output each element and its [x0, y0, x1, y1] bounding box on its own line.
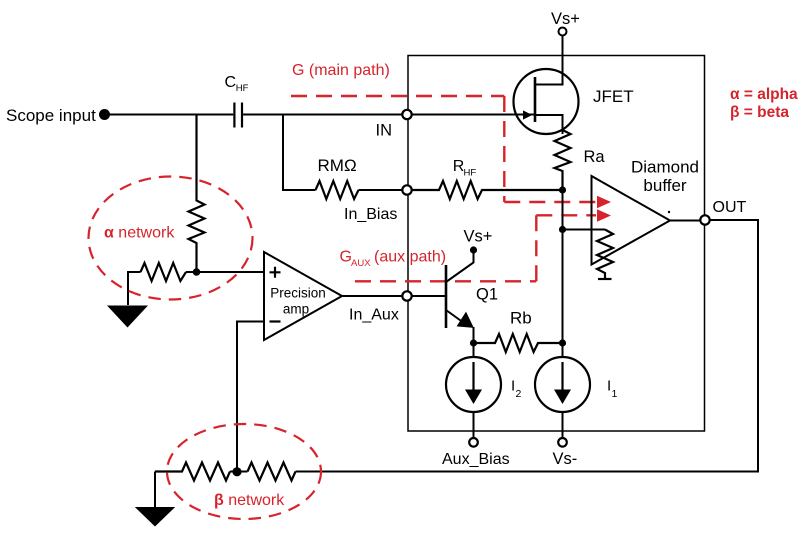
svg-text:AUX: AUX — [351, 258, 371, 269]
wire after capacitor — [243, 114, 535, 116]
q1 emitter — [446, 310, 464, 323]
current source I2 — [446, 357, 501, 412]
svg-text:RMΩ: RMΩ — [318, 156, 357, 175]
wire In_Aux to Q1 base — [412, 295, 446, 297]
wire left of resistor — [128, 272, 141, 305]
red dashed aux path — [355, 215, 596, 281]
wire to In_Bias — [359, 189, 408, 191]
terminal scope input dot — [99, 109, 110, 120]
svg-text:C: C — [225, 74, 237, 91]
node Ra bottom — [559, 186, 566, 193]
capacitor C_HF — [234, 103, 242, 128]
node Rb right — [559, 339, 566, 346]
resistor RMohm — [316, 181, 359, 199]
terminal Aux_Bias — [469, 438, 478, 447]
svg-text:amp: amp — [283, 302, 309, 317]
wire to buffer resistor — [563, 229, 606, 231]
resistor R_HF — [412, 181, 563, 199]
node emitter — [470, 339, 477, 346]
svg-text:Rb: Rb — [510, 309, 532, 328]
resistor beta left — [155, 463, 230, 481]
op-amp precision amp — [264, 252, 342, 340]
jfet source lead — [535, 115, 563, 134]
jfet drain lead — [535, 36, 563, 85]
q1 base bar — [445, 265, 448, 328]
red arrow 2 — [597, 209, 611, 221]
svg-text:IN: IN — [376, 122, 393, 140]
resistor buffer internal — [597, 230, 613, 280]
red ellipse alpha network — [89, 177, 253, 300]
node alpha — [193, 268, 201, 276]
svg-text:G (main path): G (main path) — [292, 62, 390, 79]
svg-text:Vs-: Vs- — [553, 450, 578, 468]
wire main input — [110, 114, 233, 116]
op-amp diamond buffer — [592, 176, 671, 265]
wire buffer output — [670, 220, 705, 222]
wire vertical to I1 — [562, 190, 564, 357]
terminal Vs- — [558, 438, 567, 447]
jfet circle — [514, 69, 579, 134]
wire feedback right — [296, 220, 759, 472]
svg-text:(aux path): (aux path) — [374, 249, 446, 266]
svg-text:buffer: buffer — [643, 176, 687, 195]
jfet gate arrow — [523, 110, 532, 119]
wire emitter down — [473, 327, 475, 343]
red ellipse beta network — [167, 424, 321, 519]
node In_Bias — [402, 185, 411, 194]
svg-text:Precision: Precision — [270, 286, 326, 301]
wire I2 top — [473, 343, 475, 357]
svg-text:JFET: JFET — [593, 87, 634, 106]
wire to plus input — [186, 271, 264, 273]
resistor alpha vertical — [189, 115, 205, 273]
ground beta — [135, 507, 175, 527]
plus sign — [270, 267, 281, 278]
q1 collector — [446, 253, 474, 282]
wire beta ground — [154, 472, 156, 508]
svg-text:Scope input: Scope input — [6, 106, 96, 125]
svg-text:β = beta: β = beta — [730, 104, 789, 121]
svg-text:2: 2 — [516, 388, 522, 400]
node In_Aux — [402, 291, 411, 300]
wire I1 bottom — [562, 412, 564, 438]
svg-text:Vs+: Vs+ — [551, 10, 580, 28]
svg-text:HF: HF — [236, 83, 249, 94]
svg-text:Diamond: Diamond — [631, 158, 699, 177]
node beta — [232, 467, 241, 476]
red arrow 1 — [597, 196, 611, 208]
svg-text:HF: HF — [464, 168, 477, 179]
wire amp output — [342, 295, 407, 297]
wire beta center — [230, 471, 248, 473]
wire I2 bottom — [473, 412, 475, 438]
jfet gate bar — [534, 77, 537, 122]
node OUT — [700, 215, 709, 224]
svg-text:α = alpha: α = alpha — [730, 86, 798, 103]
svg-text:Ra: Ra — [584, 148, 606, 166]
JFET U1 — [514, 36, 579, 134]
svg-text:Vs+: Vs+ — [464, 228, 493, 246]
terminal Vs+ Q1 — [470, 246, 477, 253]
svg-text:Aux_Bias: Aux_Bias — [442, 451, 510, 468]
ground alpha — [107, 306, 148, 328]
current source I1 — [535, 357, 590, 412]
decorative dot — [668, 211, 670, 213]
ground bar buffer — [598, 278, 612, 280]
terminal Vs+ top — [559, 28, 567, 36]
box amplifier block — [408, 56, 705, 432]
resistor Rb — [474, 334, 563, 352]
svg-text:α network: α network — [104, 225, 175, 242]
red dashed main path — [291, 96, 596, 202]
svg-text:Q1: Q1 — [476, 286, 498, 304]
transistor Q1 — [446, 253, 474, 328]
svg-text:OUT: OUT — [713, 199, 747, 216]
wire minus input — [237, 322, 264, 472]
wire RMohm branch — [283, 115, 316, 191]
minus sign — [270, 320, 281, 322]
q1 emitter arrow — [457, 312, 474, 328]
resistor beta right — [248, 463, 296, 481]
resistor Ra — [555, 130, 571, 190]
svg-text:In_Aux: In_Aux — [349, 307, 399, 324]
svg-text:β network: β network — [214, 492, 285, 509]
node IN — [402, 110, 411, 119]
svg-text:In_Bias: In_Bias — [344, 206, 397, 223]
svg-text:1: 1 — [612, 388, 618, 400]
node buffer input — [559, 226, 566, 233]
resistor alpha horizontal — [141, 263, 187, 281]
